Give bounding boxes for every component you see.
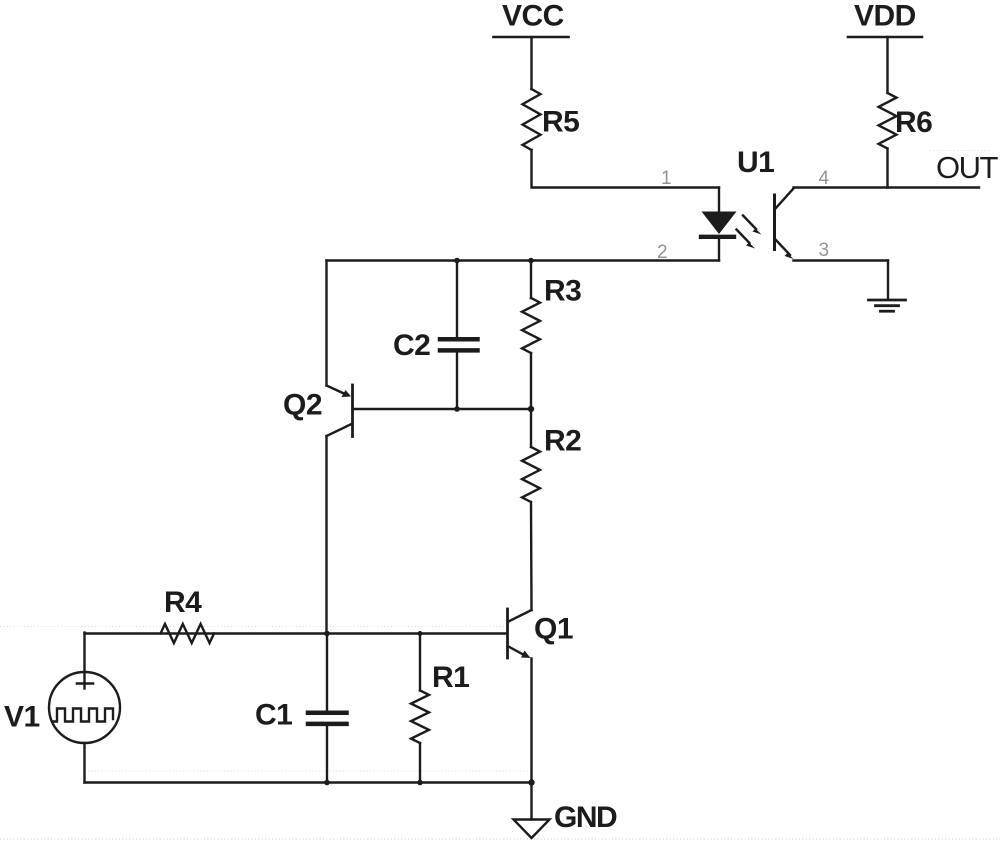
wire Q2 emitter up: [325, 261, 327, 386]
wire Q2 collector down: [325, 436, 327, 634]
transistor Q1: [508, 609, 574, 658]
wire to GND: [530, 783, 532, 820]
wire grid dotted line C: [0, 838, 1000, 840]
wire pin2: [327, 259, 720, 261]
wire bottom rail: [85, 781, 532, 783]
wire LED cathode: [718, 239, 720, 261]
svg-text:R4: R4: [164, 586, 202, 619]
wire grid dotted line A: [0, 626, 505, 628]
ground earth: [869, 300, 906, 311]
wire R6 to OUT: [886, 149, 888, 188]
wire V1 bottom: [83, 743, 85, 783]
voltage source V1: [4, 633, 120, 744]
node junction C2 top: [454, 258, 460, 264]
resistor R1: [411, 634, 469, 783]
wire Q1 base: [85, 632, 508, 634]
ground GND: [514, 801, 618, 838]
resistor R2: [522, 409, 581, 610]
node VCC: [494, 0, 569, 37]
wire Q2 base: [353, 408, 532, 410]
svg-text:2: 2: [657, 242, 668, 263]
light arrow 1: [743, 216, 762, 235]
capacitor C1: [255, 634, 347, 783]
svg-text:1: 1: [661, 168, 672, 189]
wire to earth ground: [887, 261, 889, 300]
svg-text:Q2: Q2: [283, 389, 322, 422]
svg-text:R5: R5: [542, 106, 579, 139]
diode LED of U1: [701, 212, 737, 237]
svg-text:VDD: VDD: [854, 0, 916, 33]
node junction R3 R2: [528, 406, 534, 412]
wire grid dotted line D: [930, 150, 990, 152]
resistor R6: [879, 93, 933, 149]
svg-text:R1: R1: [432, 661, 469, 694]
wire VDD to R6: [886, 37, 888, 93]
wire R5 to pin1 corner: [532, 150, 720, 188]
node junction GND: [528, 779, 534, 785]
svg-text:C1: C1: [255, 699, 292, 732]
svg-text:R6: R6: [895, 106, 932, 139]
svg-text:3: 3: [819, 240, 830, 261]
wire Q1 emitter down: [530, 659, 532, 783]
wire LED anode: [718, 188, 720, 213]
wire pin4 to OUT: [794, 186, 980, 188]
wire pin3: [794, 259, 889, 261]
resistor R5: [523, 89, 580, 150]
svg-text:R2: R2: [544, 425, 581, 458]
resistor R3: [522, 261, 581, 410]
node junction C1 top: [324, 631, 330, 637]
wire grid dotted line B: [88, 770, 531, 772]
svg-text:OUT: OUT: [936, 150, 999, 185]
svg-text:R3: R3: [544, 275, 581, 308]
node junction R3 top: [528, 258, 534, 264]
capacitor C2: [393, 261, 478, 410]
svg-text:Q1: Q1: [534, 613, 573, 646]
svg-text:GND: GND: [554, 801, 617, 834]
transistor Q2: [283, 385, 353, 437]
svg-text:4: 4: [819, 168, 830, 189]
node VDD: [848, 0, 922, 37]
transistor U1 phototransistor: [775, 189, 794, 260]
node junction C2 bottom: [454, 406, 460, 412]
resistor R4: [161, 586, 215, 643]
node junction R1 bottom: [417, 780, 423, 786]
svg-text:VCC: VCC: [502, 0, 564, 33]
node junction C1 bottom: [324, 780, 330, 786]
wire VCC to R5: [530, 37, 532, 89]
svg-text:C2: C2: [393, 329, 430, 362]
node junction R1 top: [418, 631, 423, 636]
svg-text:V1: V1: [4, 701, 40, 734]
light arrow 2: [737, 230, 756, 249]
svg-text:U1: U1: [737, 146, 774, 179]
